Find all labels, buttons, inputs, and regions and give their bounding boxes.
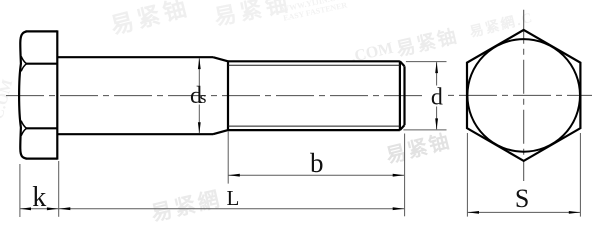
watermark small lines top <box>281 0 352 23</box>
watermark top-center <box>212 0 293 30</box>
dimension d extension lines <box>403 62 446 130</box>
svg-text:d: d <box>431 85 443 111</box>
dimension ds <box>198 58 200 133</box>
svg-text:k: k <box>32 182 46 213</box>
head chamfer arc top band <box>21 56 26 63</box>
chamfer circle <box>467 39 580 152</box>
thread runout diagonal top <box>213 57 228 61</box>
svg-text:S: S <box>515 184 529 213</box>
head top edge <box>26 30 58 32</box>
shank bottom line <box>57 133 213 135</box>
head bottom edge <box>26 158 58 160</box>
thread start vertical <box>227 61 229 130</box>
watermark top-left <box>108 0 193 39</box>
thread root line top <box>228 64 400 66</box>
dimension S <box>467 133 580 217</box>
head upper facet line <box>26 63 58 65</box>
head right edge (washer face) <box>56 30 58 159</box>
watermark .COM center <box>349 40 395 66</box>
dimension L <box>59 134 405 217</box>
centerline hex horizontal <box>448 94 592 96</box>
dimension b <box>228 132 404 184</box>
watermark above d dim <box>394 24 461 61</box>
head chamfer arc middle band upper <box>21 64 26 72</box>
svg-text:s: s <box>200 88 207 107</box>
head lower facet line <box>26 127 58 129</box>
watermark left edge <box>0 78 16 121</box>
head left silhouette <box>19 32 26 159</box>
centerline hex vertical <box>523 10 525 181</box>
watermark bottom <box>149 186 225 226</box>
shank top line <box>57 56 213 58</box>
thread root line bottom <box>228 125 400 127</box>
watermark mid-right <box>383 129 453 168</box>
thread major diameter bottom <box>228 129 400 131</box>
svg-text:b: b <box>310 148 324 178</box>
tip chamfer diagonal bottom <box>400 125 405 130</box>
watermark top-right <box>468 9 536 41</box>
thread runout diagonal bottom <box>213 130 228 134</box>
dimension k <box>20 164 59 217</box>
svg-text:L: L <box>227 186 240 210</box>
hexagon end view <box>467 30 580 161</box>
centerline main axis <box>6 95 427 97</box>
chamfer start vertical at tip <box>399 61 401 130</box>
thread major diameter top <box>228 60 400 62</box>
head chamfer arc bottom band <box>21 128 26 135</box>
head chamfer arc middle band lower <box>21 121 26 129</box>
shank and thread outline <box>57 57 404 134</box>
tip chamfer diagonal top <box>400 61 405 66</box>
bolt end face <box>403 66 405 125</box>
bolt head side view outline <box>19 30 57 159</box>
